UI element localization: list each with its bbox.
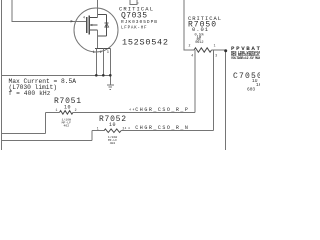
- svg-text:10: 10: [109, 122, 116, 128]
- svg-text:2: 2: [189, 43, 191, 47]
- svg-text:4: 4: [83, 16, 85, 20]
- svg-text:10: 10: [64, 105, 71, 111]
- svg-text:1: 1: [56, 108, 58, 112]
- svg-text:402: 402: [110, 141, 116, 145]
- svg-text:4 4: 4 4: [129, 108, 134, 111]
- svg-text:2: 2: [100, 50, 102, 54]
- svg-text:3: 3: [215, 54, 217, 58]
- svg-text:0612: 0612: [195, 41, 203, 45]
- svg-text:LFPAK-HF: LFPAK-HF: [121, 27, 147, 31]
- svg-text:f = 400 kHz: f = 400 kHz: [9, 90, 51, 97]
- svg-text:603: 603: [247, 86, 255, 92]
- svg-text:402: 402: [64, 123, 70, 127]
- svg-text:1: 1: [214, 43, 216, 47]
- svg-text:152S0542: 152S0542: [122, 37, 168, 47]
- svg-text:4 4: 4 4: [125, 127, 130, 130]
- svg-text:2: 2: [75, 108, 77, 112]
- svg-text:RJK0305DPB: RJK0305DPB: [121, 19, 157, 25]
- svg-text:VOLTAGE=12.6V MAXIMUM LINE: VOLTAGE=12.6V MAXIMUM LINE: [231, 56, 260, 60]
- svg-text:16V: 16V: [256, 82, 260, 88]
- svg-text:0.01: 0.01: [192, 26, 209, 33]
- svg-text:4: 4: [191, 54, 193, 58]
- svg-text:3: 3: [107, 50, 109, 54]
- svg-text:1: 1: [93, 50, 95, 54]
- svg-text:1: 1: [97, 127, 99, 131]
